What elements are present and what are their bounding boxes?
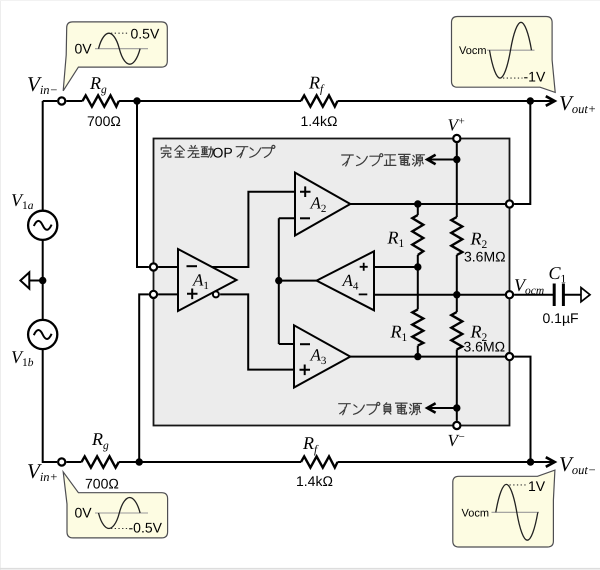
svg-text:1V: 1V — [528, 478, 546, 494]
svg-text:0.1µF: 0.1µF — [543, 310, 579, 326]
A3 minus symbol — [300, 343, 310, 345]
A1 minus symbol — [187, 265, 198, 267]
bubble2 axis — [487, 49, 535, 51]
bubble1 axis — [95, 48, 148, 50]
bubble3 dotted — [111, 528, 129, 530]
terminal A1 plus on box edge — [150, 291, 157, 298]
resistor Rf (top, 1.4k ohm) — [301, 95, 338, 106]
arrowhead Vout- — [546, 457, 555, 467]
A3 plus symbol — [300, 365, 311, 376]
wire R1 upper stubs — [417, 204, 419, 267]
wire A1 lower inverted output to A3 plus input — [220, 294, 294, 369]
wire R2 upper to Vocm row — [456, 255, 458, 295]
svg-text:700Ω: 700Ω — [85, 476, 119, 492]
op-amp A1 — [178, 249, 237, 311]
junction node A3 out / R1 — [414, 353, 421, 360]
terminal Vocm on box edge — [506, 291, 513, 298]
resistor Rf (bottom, 1.4k ohm) — [301, 456, 338, 467]
A2 minus symbol — [300, 217, 310, 219]
wire R2 lower stubs and to V- — [456, 295, 458, 421]
svg-text:Vocm: Vocm — [462, 508, 490, 520]
callout bubble bottom-right — [453, 470, 555, 547]
label negative supply アンプ負電源 — [339, 402, 422, 414]
wire A4 plus input to R1 midpoint — [374, 266, 418, 268]
junction node bottom rail Rg/Rf — [136, 458, 143, 465]
terminal A1 minus on box edge — [150, 263, 157, 270]
svg-text:-0.5V: -0.5V — [129, 520, 163, 536]
wire left rail — [43, 101, 57, 462]
wire A1 upper output to A2 plus input — [212, 192, 295, 267]
bubble4 axis — [492, 511, 540, 513]
bubble2 dotted — [503, 77, 523, 79]
junction node negative supply — [453, 404, 460, 411]
callout bubble bottom-left — [63, 472, 167, 538]
inverting output bubble of A1 — [213, 291, 219, 297]
svg-text:0V: 0V — [75, 505, 93, 521]
wire A2 output to box edge — [350, 203, 505, 205]
wire top feedback Rg/Rf node to A1 minus — [137, 101, 149, 267]
wire positive supply annotation arrow line — [429, 159, 457, 161]
svg-text:OP: OP — [213, 145, 233, 161]
junction node positive supply — [453, 156, 460, 163]
wire negative supply annotation arrow line — [429, 407, 457, 409]
svg-text:3.6MΩ: 3.6MΩ — [464, 249, 506, 265]
resistor R2 (lower, 3.6M ohm) — [451, 312, 462, 350]
junction node left rail reference — [39, 277, 46, 284]
wire A1 plus input inside box — [158, 293, 178, 295]
wire bottom rail Rg to Rf — [66, 461, 301, 463]
junction node A2 out / R1 — [414, 200, 421, 207]
capacitor C1 plates — [554, 284, 563, 307]
bubble1 dotted — [111, 32, 130, 34]
resistor Rg (bottom, 700 ohm) — [82, 456, 119, 467]
callout bubble top-left — [63, 22, 167, 91]
terminal V+ on box top — [453, 135, 460, 142]
junction node bottom rail output — [527, 458, 534, 465]
svg-text:0.5V: 0.5V — [131, 26, 160, 42]
wire top rail Rf to Vout+ arrow — [338, 100, 554, 102]
op-amp A4 (points left) — [317, 251, 374, 310]
svg-text:1.4kΩ: 1.4kΩ — [301, 113, 338, 129]
junction node A4 output — [275, 277, 282, 284]
resistor R1 (lower) — [412, 309, 423, 345]
A2 plus symbol — [300, 186, 311, 197]
wire A1 minus input inside box — [158, 266, 178, 268]
label positive supply アンプ正電源 — [342, 154, 425, 166]
wire top rail left segment — [43, 100, 57, 102]
op-amp A2 — [295, 173, 350, 236]
terminal V- on box bottom — [453, 422, 460, 429]
resistor Rg (top, 700 ohm) — [83, 95, 119, 106]
svg-text:1.4kΩ: 1.4kΩ — [296, 473, 333, 489]
junction node top rail output — [527, 97, 534, 104]
A4 plus symbol — [360, 263, 368, 271]
op-amp A3 — [294, 325, 350, 387]
terminal Vin- — [58, 97, 65, 104]
wire Vocm node to C1 — [514, 294, 554, 296]
open triangle terminal after C1 — [581, 288, 590, 302]
svg-text:3.6MΩ: 3.6MΩ — [464, 339, 506, 355]
wire bottom rail Rf to Vout- arrow — [338, 461, 554, 463]
wire bottom feedback node to A1 plus — [139, 294, 149, 462]
A1 plus symbol — [187, 289, 198, 300]
page edge faint borders — [0, 0, 2, 570]
svg-text:Vocm: Vocm — [459, 45, 487, 57]
wire R1 lower stubs — [417, 267, 419, 357]
bubble4 sine (up first) — [496, 484, 538, 540]
bubble2 sine (down first) — [490, 22, 532, 78]
terminal A2 out on box edge — [506, 200, 513, 207]
junction node top rail Rg/Rf — [133, 97, 140, 104]
junction node Vocm / R2 — [453, 291, 460, 298]
svg-text:-1V: -1V — [524, 69, 546, 85]
label box title 完全差動OPアンプ — [161, 145, 275, 158]
bubble3 axis — [95, 512, 148, 514]
wire V+ through positive supply node down to R2 — [456, 143, 458, 217]
bubble4 dotted — [510, 484, 528, 486]
fully differential opamp body box — [154, 139, 510, 426]
svg-text:0V: 0V — [75, 41, 93, 57]
bubble3 sine (down first) — [99, 498, 141, 529]
wire A4 output distribution to A2 minus and A3 minus — [279, 218, 317, 344]
wire A3 output to box edge — [350, 356, 505, 358]
arrowhead Vout+ — [546, 96, 555, 106]
source V1b — [28, 320, 57, 349]
resistor R2 (upper, 3.6M ohm) — [451, 217, 462, 255]
callout bubble top-right — [452, 17, 556, 93]
terminal Vin+ — [58, 458, 65, 465]
wire C1 to open arrow — [563, 294, 581, 296]
open triangle reference arrow at left — [20, 272, 29, 288]
terminal A3 out on box edge — [506, 353, 513, 360]
source V1a — [28, 211, 57, 240]
wire A3 output feedback to bottom rail — [514, 357, 530, 462]
wire Vocm row from A4 minus input to box edge — [374, 294, 505, 296]
arrowhead negative supply (points left) — [427, 403, 435, 413]
svg-text:700Ω: 700Ω — [87, 113, 121, 129]
resistor R1 (upper) — [412, 215, 423, 255]
junction node R1 midpoint / A4 plus — [414, 263, 421, 270]
wire A2 output feedback to top rail — [514, 101, 530, 204]
arrowhead positive supply (points left) — [427, 155, 435, 165]
A4 minus symbol — [359, 293, 368, 295]
wire top rail Rg to Rf — [66, 100, 301, 102]
wire reference arrow stub — [29, 280, 42, 282]
bubble1 sine — [99, 33, 141, 64]
